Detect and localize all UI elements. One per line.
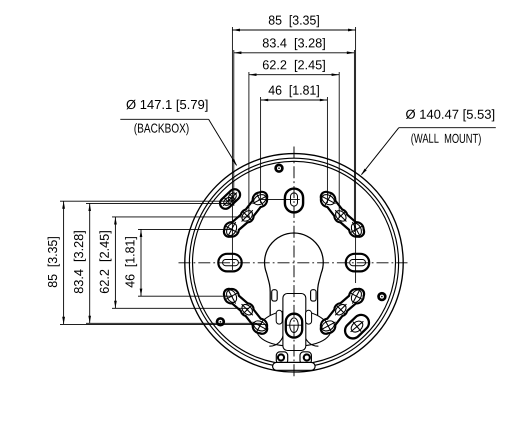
tab screw left — [277, 353, 285, 361]
keyhole side clip right — [311, 290, 317, 301]
backbox circle Ø147.1 — [189, 158, 398, 367]
screw hole upper-left-1 — [252, 193, 268, 207]
bottom tab left — [276, 352, 287, 364]
text dim label 62.2 [2.45] (left) — [99, 231, 111, 293]
tab screw right — [303, 353, 311, 361]
horizontal extension lines — [60, 201, 268, 324]
dimension 83.4 [3.28] (left) — [89, 203, 91, 323]
plate outer edge circle — [185, 154, 403, 372]
screw hole upper-right-1 — [320, 193, 336, 207]
text BACKBOX — [134, 123, 188, 135]
screw hole lower-right-2 — [334, 302, 349, 317]
bottom screw stadium — [286, 314, 302, 338]
bottom tab right — [300, 352, 311, 364]
dimension 46 [1.81] (top) — [261, 99, 328, 101]
screw hole lower-left-1 — [225, 288, 239, 304]
screw hole lower-left-2 — [240, 302, 255, 317]
horizontal centerline — [179, 262, 408, 264]
keyhole side clip left — [272, 290, 278, 301]
top slot — [285, 189, 303, 213]
text dim label 83.4 [3.28] — [263, 38, 325, 50]
dimension 62.2 [2.45] (top) — [249, 74, 339, 76]
wall mount circle Ø140.47 — [193, 161, 396, 364]
slot upper-left stadium — [226, 195, 235, 204]
slot chain upper-right outline — [326, 197, 359, 232]
top slot tick line — [259, 198, 300, 200]
screw hole lower-left-3 — [252, 319, 268, 333]
screw hole LR — [349, 319, 365, 334]
text dim label 85 [3.35] (left) — [48, 237, 60, 287]
slot chain lower-left outline — [229, 294, 262, 329]
vertical extension lines — [232, 27, 355, 283]
slot lower-right — [353, 323, 361, 331]
text diameter 140.47 wall mount — [406, 109, 494, 121]
text diameter 147.1 backbox — [126, 100, 207, 112]
screw hole upper-right-3 — [349, 221, 363, 237]
rim screw lower-left — [216, 317, 225, 326]
screw hole UL-b — [222, 196, 233, 207]
left slot — [218, 254, 241, 272]
vertical centerline — [293, 147, 295, 379]
screw hole lower-right-3 — [320, 319, 336, 333]
finger slot right — [306, 310, 312, 324]
screw hole lower-right-1 — [349, 288, 363, 304]
slot chain upper-left outline — [229, 197, 262, 232]
spring wing right — [304, 311, 331, 346]
bottom bridge — [273, 362, 316, 370]
screw hole upper-left-2 — [240, 209, 255, 224]
dimension 83.4 [3.28] (top) — [234, 52, 355, 54]
keyhole door plate — [283, 294, 306, 351]
text dim label 46 [1.81] — [269, 85, 319, 97]
text dim label 85 [3.35] — [269, 15, 319, 27]
dimension 46 [1.81] (left) — [140, 229, 142, 296]
finger slot left — [276, 310, 282, 324]
rim screw top — [274, 164, 283, 173]
text dim label 62.2 [2.45] — [263, 60, 325, 72]
text dim label 83.4 [3.28] (left) — [74, 231, 86, 293]
rim screw right — [377, 292, 386, 301]
slot chain lower-right outline — [326, 294, 359, 329]
right slot — [346, 254, 369, 272]
spring wing left — [257, 311, 284, 346]
dimension 85 [3.35] (left) — [63, 201, 65, 324]
central keyhole cutout — [265, 233, 324, 341]
screw hole upper-left-3 — [225, 221, 239, 237]
screw hole upper-right-2 — [334, 209, 349, 224]
text dim label 46 [1.81] (left) — [125, 237, 137, 287]
dimension 85 [3.35] (top) — [232, 29, 355, 31]
dimension 62.2 [2.45] (left) — [114, 217, 116, 308]
svg-text:(WALL MOUNT): (WALL MOUNT) — [411, 131, 482, 146]
screw hole UL-a — [227, 191, 238, 202]
